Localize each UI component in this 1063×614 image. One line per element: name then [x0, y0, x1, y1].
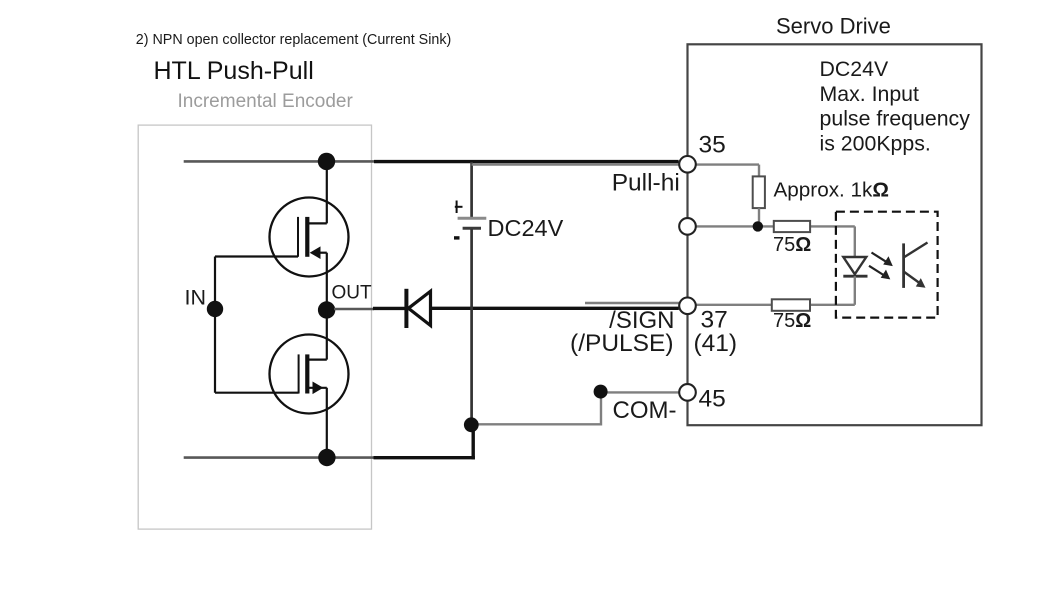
- node: IN dot: [207, 301, 223, 317]
- node: bottom rail junction dot: [318, 449, 335, 466]
- label: battery minus: [454, 236, 460, 239]
- wire: top rail to Q1 drain: [326, 161, 328, 223]
- wire: middle gray rail pin to opto: [688, 225, 855, 227]
- svg-text:75Ω: 75Ω: [773, 234, 811, 256]
- node: OUT dot: [318, 301, 335, 318]
- svg-text:35: 35: [699, 131, 726, 158]
- wire: LED cathode down: [854, 276, 856, 305]
- diode D1 (pointing left): [404, 289, 430, 328]
- pin 45 circle: [679, 384, 696, 401]
- wire: top rail black to pin 35: [374, 160, 679, 163]
- wire: pin 37 to opto bottom: [688, 304, 855, 306]
- resistor R3 75ohm (horizontal bottom): [772, 299, 810, 311]
- wire: black vertical up to COM- node: [472, 424, 475, 459]
- wire: gray stub left of pin 37: [585, 302, 687, 304]
- wire: IN vertical: [214, 257, 216, 393]
- svg-text:Approx. 1kΩ: Approx. 1kΩ: [774, 179, 890, 202]
- svg-text:Pull-hi: Pull-hi: [612, 170, 680, 197]
- wire: COM- gray from battery node: [472, 392, 679, 424]
- light arrow 2: [869, 266, 890, 280]
- node: COM- corner dot: [594, 385, 608, 399]
- wire: gray battery+ to pin 35 / 1k resistor: [472, 163, 759, 165]
- transistor Q2 (bottom N-channel MOSFET): [270, 310, 349, 458]
- wire: Q2 gate lead: [215, 392, 299, 394]
- resistor R2 75ohm (horizontal top): [774, 221, 810, 232]
- light arrow 1: [872, 253, 893, 267]
- svg-text:Servo Drive: Servo Drive: [776, 14, 891, 39]
- node: R1 junction dot: [753, 221, 763, 231]
- svg-text:(/PULSE): (/PULSE): [570, 330, 673, 357]
- transistor Q1 (top P-channel MOSFET): [270, 198, 349, 311]
- svg-text:45: 45: [699, 386, 726, 413]
- wire: R1 to junction: [758, 208, 760, 226]
- optocoupler dashed box: [836, 212, 938, 318]
- svg-text:2) NPN open collector replacem: 2) NPN open collector replacement (Curre…: [136, 32, 451, 48]
- svg-text:IN: IN: [185, 286, 207, 310]
- wire: bottom rail gray (inside encoder): [184, 456, 376, 459]
- svg-text:HTL Push-Pull: HTL Push-Pull: [154, 57, 314, 85]
- encoder box: [138, 125, 371, 529]
- pin 37 circle: [679, 298, 696, 315]
- resistor R1 1k (vertical): [753, 176, 765, 208]
- LED of optocoupler U1: [843, 257, 866, 274]
- svg-text:Incremental Encoder: Incremental Encoder: [178, 91, 354, 112]
- phototransistor of optocoupler U1: [904, 243, 928, 288]
- svg-text:75Ω: 75Ω: [773, 310, 811, 332]
- wire: bottom rail black to battery minus: [374, 456, 475, 459]
- node: battery minus / COM- dot: [464, 417, 479, 432]
- svg-text:COM-: COM-: [613, 397, 677, 424]
- wire: top rail gray (inside encoder): [184, 160, 376, 163]
- svg-text:OUT: OUT: [332, 283, 373, 304]
- wire: Q1 gate lead: [215, 255, 298, 257]
- svg-text:DC24V: DC24V: [488, 215, 564, 241]
- wire: OUT black to diode: [373, 307, 405, 310]
- wire: opto LED vertical anode: [854, 226, 856, 257]
- wire: OUT gray lead: [334, 308, 374, 311]
- wire: diode to pin 37 black: [431, 307, 679, 310]
- pin circle (middle, unnumbered): [679, 218, 696, 235]
- battery B1 DC24V: [458, 162, 487, 424]
- wire: down to R1: [758, 165, 760, 177]
- node: top rail junction dot: [318, 153, 335, 170]
- servo drive box: [688, 44, 982, 425]
- svg-text:(41): (41): [694, 330, 738, 357]
- label: battery plus: [455, 201, 463, 214]
- pin 35 circle: [679, 156, 696, 173]
